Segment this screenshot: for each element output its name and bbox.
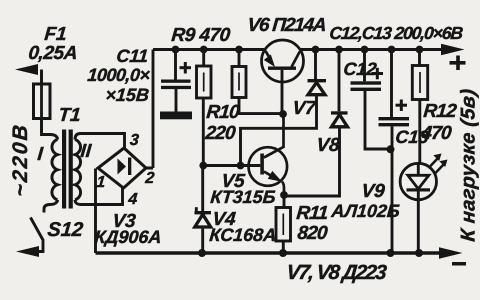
svg-text:R12: R12 [423,101,458,122]
svg-text:0,25A: 0,25A [28,43,78,64]
svg-text:3: 3 [129,131,140,149]
svg-text:1000,0×: 1000,0× [87,65,152,85]
svg-text:V9: V9 [361,181,386,202]
svg-text:С11: С11 [116,46,149,66]
svg-text:V7: V7 [292,98,318,119]
svg-text:T1: T1 [58,105,82,126]
svg-text:R11: R11 [296,203,329,224]
svg-text:V7, V8 Д223: V7, V8 Д223 [286,261,389,284]
svg-text:×15В: ×15В [105,85,150,105]
svg-text:V6 П214А: V6 П214А [247,15,327,36]
svg-text:С12,С13 200,0×6В: С12,С13 200,0×6В [329,23,464,43]
svg-text:S12: S12 [47,219,84,241]
svg-text:КТ315Б: КТ315Б [210,187,277,207]
svg-text:2: 2 [144,169,156,187]
svg-text:1: 1 [96,173,107,191]
svg-text:R10: R10 [206,102,241,123]
svg-text:АЛ102Б: АЛ102Б [330,201,401,221]
svg-text:~220В: ~220В [9,122,32,197]
svg-text:4: 4 [127,190,139,208]
svg-text:С12: С12 [343,59,378,79]
svg-text:220: 220 [204,123,237,144]
svg-text:КД906А: КД906А [94,227,163,247]
svg-text:С13: С13 [395,127,430,147]
svg-text:V8: V8 [316,135,341,156]
svg-text:КС168А: КС168А [209,225,278,245]
svg-text:820: 820 [297,223,329,244]
svg-text:К нагрузке (5в): К нагрузке (5в) [458,88,480,243]
svg-text:R9 470: R9 470 [171,25,232,46]
svg-text:F1: F1 [44,24,68,45]
